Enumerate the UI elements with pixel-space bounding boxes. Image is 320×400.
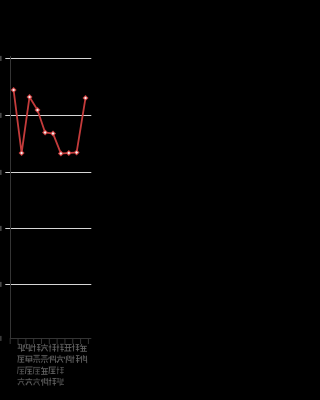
- y-axis label sliver 4: [0, 226, 2, 231]
- data point 2: [19, 150, 25, 156]
- data line (red series): [14, 90, 86, 154]
- x category label 6: 敌对情绪: [56, 344, 64, 386]
- horizontal gridline 4: [5, 228, 91, 230]
- x-axis baseline: [10, 338, 92, 340]
- x-axis tick 2: [17, 339, 19, 345]
- x-axis tick 6: [48, 339, 50, 345]
- x category label 2: 强迫症状: [25, 344, 32, 385]
- x category label 3: 抑郁症状: [33, 344, 41, 386]
- x-axis tick 9: [72, 339, 74, 345]
- y-axis line: [10, 56, 12, 339]
- x-axis tick 4: [33, 339, 35, 345]
- y-axis label sliver 5: [0, 282, 2, 287]
- x-axis tick 10: [80, 339, 82, 345]
- data point 6: [50, 131, 56, 137]
- x-axis tick 1: [9, 339, 11, 345]
- x category label 9: 其他: [80, 344, 87, 363]
- data point 1: [11, 87, 17, 93]
- x-axis tick 7: [56, 339, 58, 345]
- horizontal gridline 5: [5, 284, 91, 286]
- x-axis tick 3: [25, 339, 27, 345]
- x-axis tick 5: [40, 339, 42, 345]
- y-axis label sliver 1: [0, 56, 2, 61]
- horizontal gridline 3: [5, 172, 91, 174]
- horizontal gridline 2: [5, 115, 91, 117]
- y-axis label sliver 6: [0, 336, 2, 341]
- y-axis label sliver 3: [0, 170, 2, 175]
- x-axis tick 8: [64, 339, 66, 345]
- x category label 4: 人际关系: [41, 344, 48, 386]
- y-axis label sliver 2: [0, 113, 2, 118]
- data point 7: [58, 151, 64, 157]
- x category label 1: 焦虑症状: [17, 344, 25, 385]
- x category label 5: 精神病性: [49, 344, 56, 385]
- data point 3: [27, 94, 33, 100]
- x-axis tick 11: [87, 339, 89, 345]
- x category label 8: 偏执: [72, 344, 80, 363]
- x category label 7: 恐怖: [64, 345, 71, 364]
- data point 4: [35, 107, 41, 113]
- horizontal gridline 1: [5, 58, 91, 60]
- data point 9: [74, 150, 80, 156]
- data point 5: [42, 130, 48, 136]
- data point 8: [66, 150, 72, 156]
- data point 10: [83, 95, 89, 101]
